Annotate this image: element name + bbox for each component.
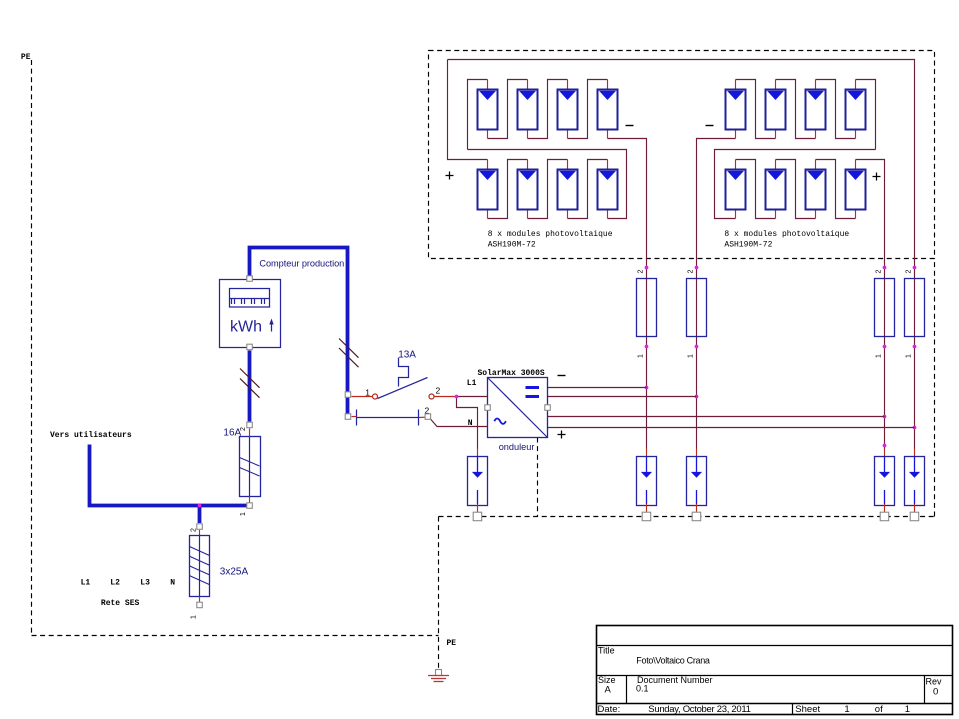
- svg-text:PE: PE: [447, 639, 457, 648]
- svg-text:0.1: 0.1: [636, 684, 649, 694]
- svg-text:Size: Size: [598, 675, 616, 685]
- svg-text:8 x modules photovoltaique: 8 x modules photovoltaique: [488, 230, 613, 239]
- svg-text:Title: Title: [598, 646, 615, 656]
- svg-text:L2: L2: [110, 578, 120, 587]
- svg-text:PE: PE: [21, 53, 31, 62]
- svg-text:ASH190M-72: ASH190M-72: [488, 241, 536, 250]
- svg-text:L3: L3: [140, 578, 150, 587]
- svg-text:1: 1: [906, 354, 913, 358]
- svg-text:Sheet: Sheet: [795, 704, 820, 715]
- svg-text:13A: 13A: [398, 349, 416, 360]
- svg-text:0: 0: [933, 687, 938, 698]
- svg-text:Rete SES: Rete SES: [101, 599, 140, 608]
- svg-text:1: 1: [191, 615, 198, 619]
- svg-text:2: 2: [436, 386, 441, 396]
- svg-text:1: 1: [240, 512, 247, 516]
- svg-text:Date:: Date:: [598, 704, 621, 715]
- svg-text:1: 1: [876, 354, 883, 358]
- svg-text:1: 1: [844, 704, 849, 715]
- svg-text:ASH190M-72: ASH190M-72: [724, 241, 772, 250]
- svg-text:Compteur production: Compteur production: [259, 258, 344, 268]
- svg-text:8 x modules photovoltaique: 8 x modules photovoltaique: [724, 230, 849, 239]
- svg-text:2: 2: [638, 270, 645, 274]
- svg-text:SolarMax 3000S: SolarMax 3000S: [478, 369, 545, 378]
- svg-text:Vers utilisateurs: Vers utilisateurs: [50, 431, 132, 440]
- svg-text:1: 1: [905, 704, 910, 715]
- svg-text:L1: L1: [467, 379, 477, 388]
- svg-text:of: of: [875, 704, 883, 715]
- svg-text:Rev: Rev: [926, 677, 943, 687]
- svg-text:L1: L1: [81, 578, 91, 587]
- svg-text:A: A: [605, 685, 612, 696]
- svg-text:1: 1: [688, 354, 695, 358]
- svg-text:3x25A: 3x25A: [220, 567, 249, 578]
- svg-text:kWh: kWh: [230, 319, 262, 336]
- svg-text:N: N: [170, 578, 175, 587]
- svg-text:1: 1: [638, 354, 645, 358]
- svg-text:2: 2: [688, 270, 695, 274]
- svg-text:2: 2: [906, 270, 913, 274]
- svg-text:2: 2: [240, 427, 247, 431]
- svg-text:Sunday, October 23, 2011: Sunday, October 23, 2011: [648, 704, 750, 715]
- svg-text:2: 2: [876, 270, 883, 274]
- svg-text:onduleur: onduleur: [499, 442, 535, 452]
- svg-text:Foto\Voltaico Crana: Foto\Voltaico Crana: [636, 656, 710, 666]
- svg-text:16A: 16A: [223, 427, 241, 438]
